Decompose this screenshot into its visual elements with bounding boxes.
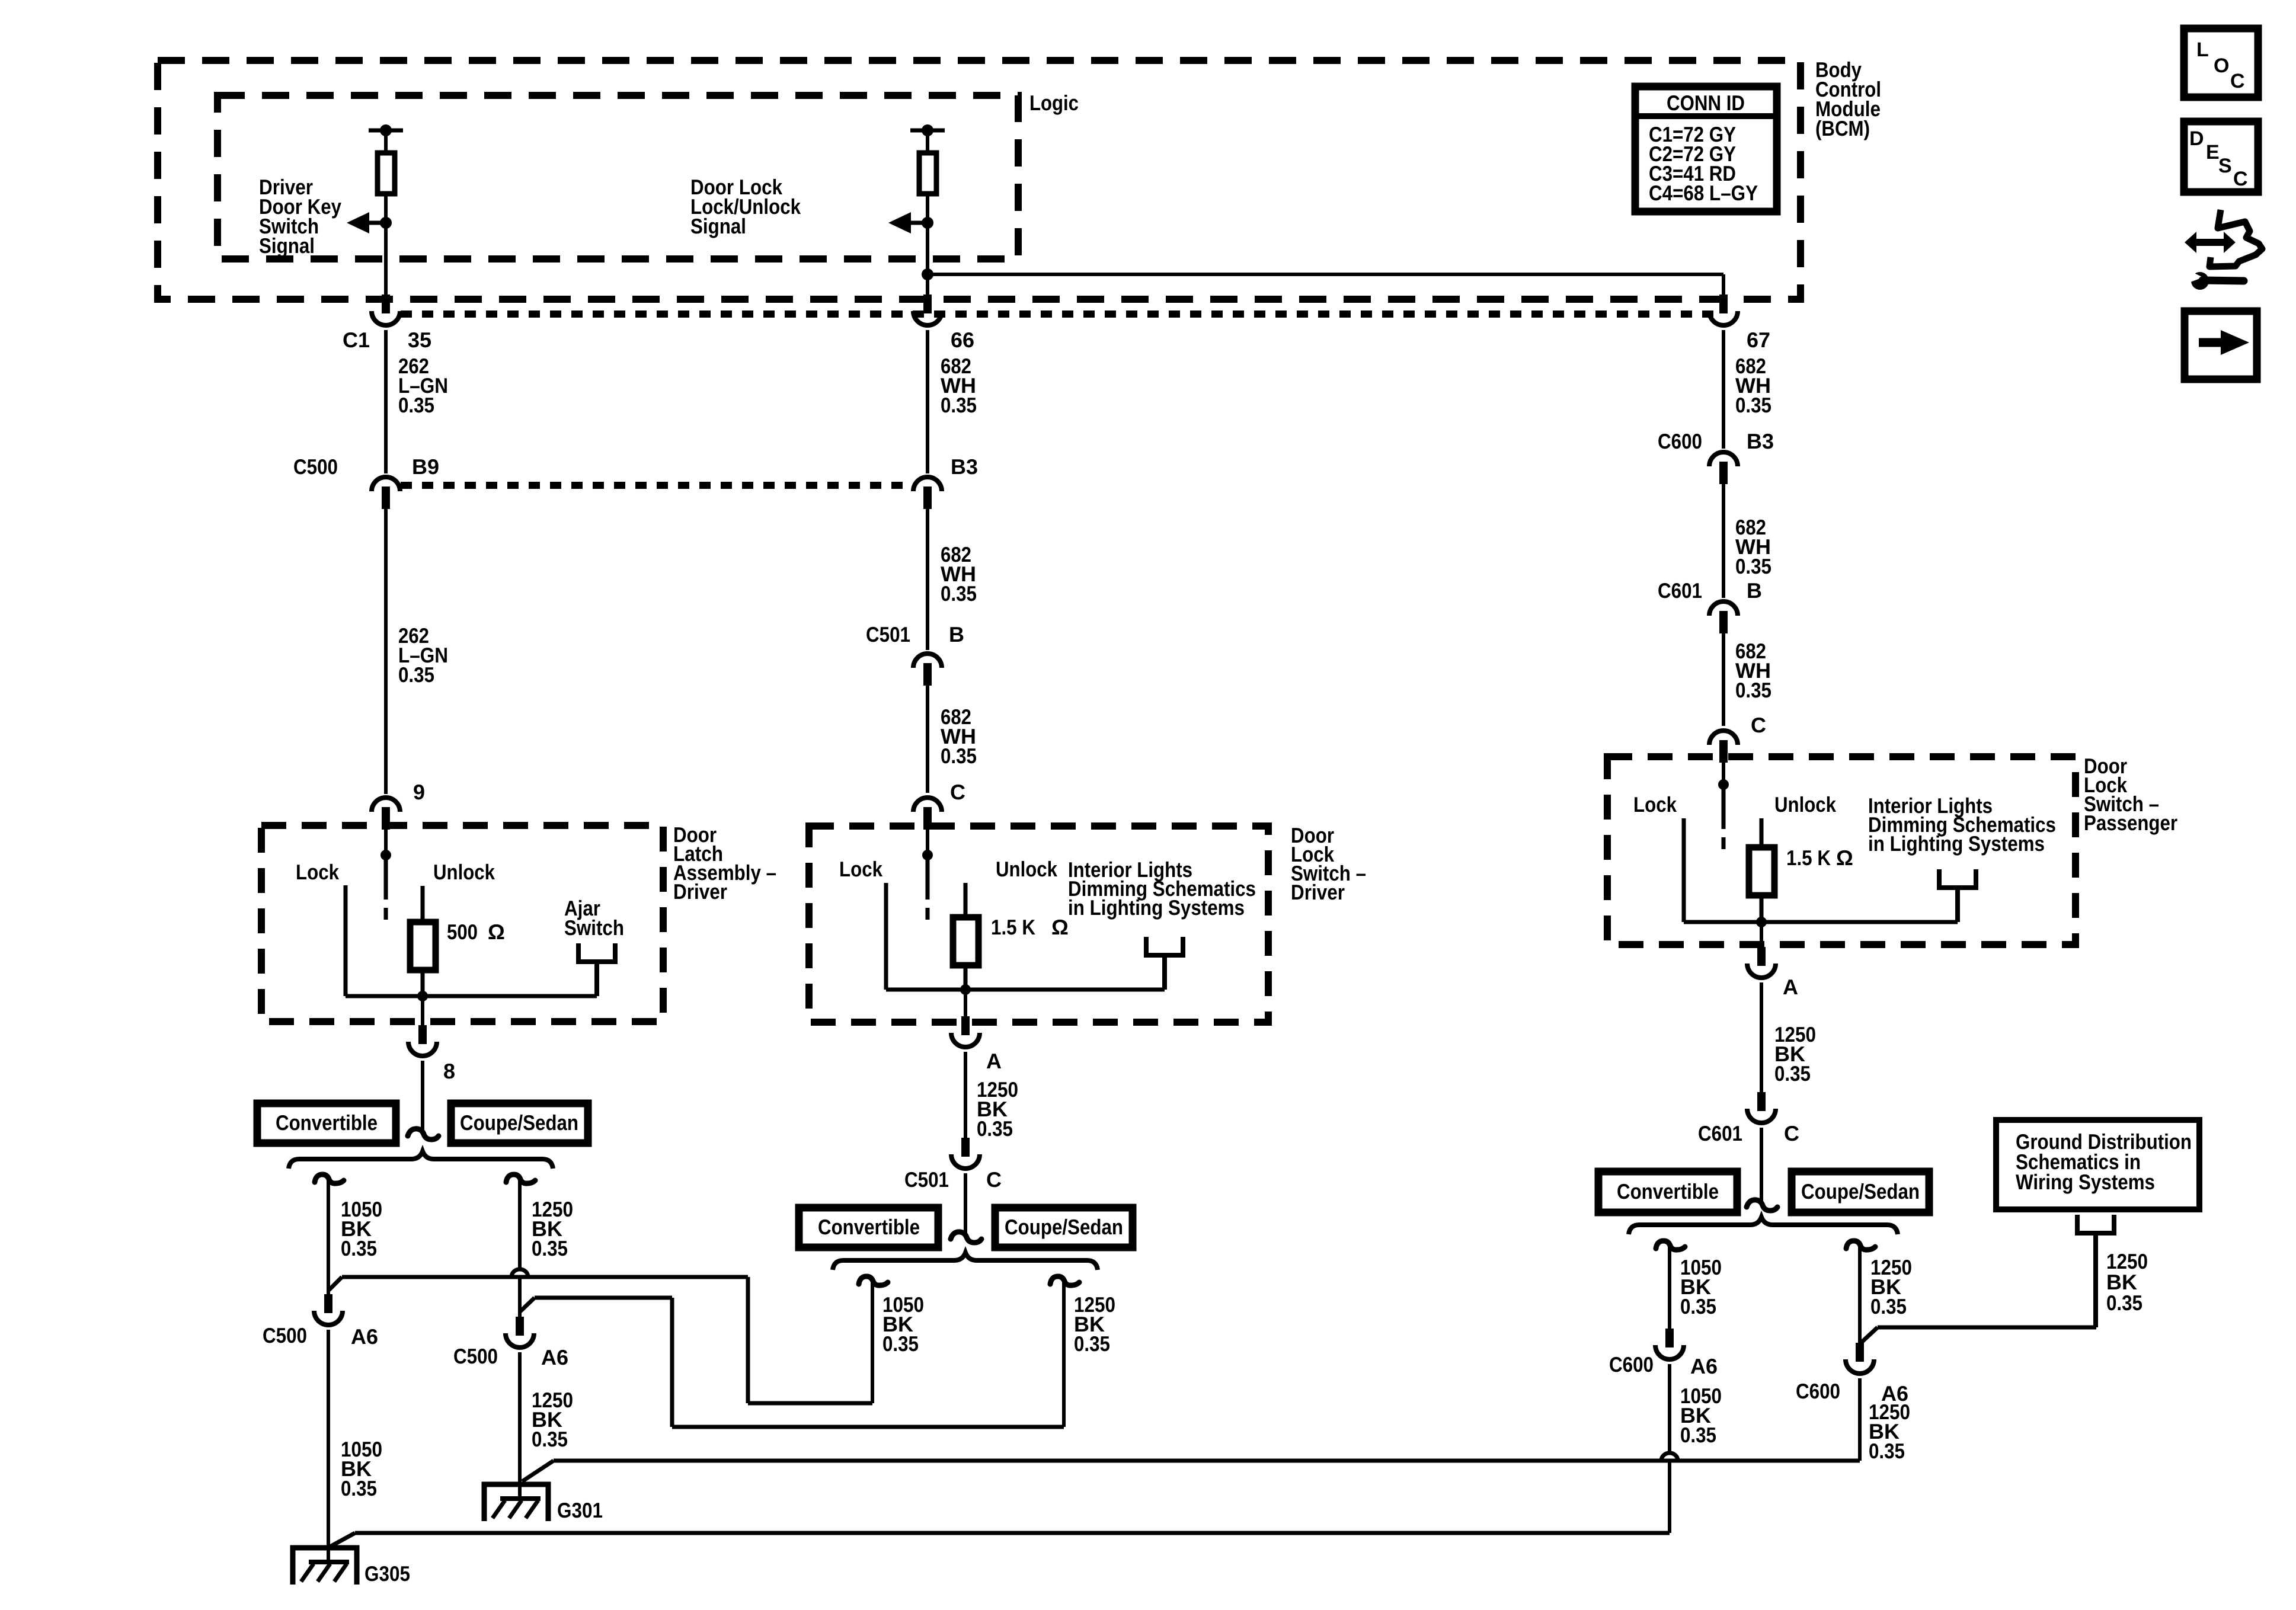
Door Latch Assembly - Driver dashed box bbox=[261, 825, 663, 1022]
passenger lock switch blade bbox=[1722, 785, 1726, 829]
Coupe/Sedan option box (passenger switch) bbox=[1792, 1172, 1929, 1212]
driver switch resistor 1.5K bbox=[953, 917, 978, 965]
Logic dashed box bbox=[218, 95, 1018, 259]
svg-text:Convertible: Convertible bbox=[818, 1215, 920, 1239]
svg-text:0.35: 0.35 bbox=[1074, 1331, 1110, 1356]
Body Control Module (BCM) dashed box bbox=[158, 60, 1801, 299]
svg-text:Logic: Logic bbox=[1029, 91, 1079, 115]
svg-text:C501: C501 bbox=[866, 622, 910, 646]
svg-text:S: S bbox=[2218, 155, 2232, 177]
latch switch blade bbox=[384, 855, 388, 900]
driver switch internal bus bbox=[886, 988, 1165, 992]
forward arrow icon box bbox=[2185, 311, 2257, 379]
svg-text:Convertible: Convertible bbox=[276, 1110, 378, 1135]
wire passenger switch output bbox=[1760, 922, 1763, 947]
svg-text:0.35: 0.35 bbox=[941, 581, 977, 606]
svg-text:C500: C500 bbox=[293, 454, 338, 479]
wire route convertible branch to ground wire A bbox=[748, 1401, 872, 1406]
door lock lock/unlock signal arrow bbox=[906, 221, 928, 225]
convertible branch hook bbox=[315, 1174, 344, 1183]
wire 262 L-GN lower bbox=[384, 505, 388, 794]
coupe/sedan branch hook bbox=[506, 1174, 535, 1183]
svg-text:Coupe/Sedan: Coupe/Sedan bbox=[460, 1110, 578, 1135]
wire to pin 66 bbox=[926, 223, 929, 295]
svg-text:0.35: 0.35 bbox=[941, 393, 977, 417]
svg-text:0.35: 0.35 bbox=[1870, 1294, 1907, 1318]
connector C1 pin 35 bbox=[382, 295, 390, 313]
svg-text:B3: B3 bbox=[951, 454, 978, 479]
svg-text:G301: G301 bbox=[557, 1498, 603, 1522]
svg-text:CONN ID: CONN ID bbox=[1667, 91, 1745, 115]
connector C501 pin B bbox=[913, 654, 942, 668]
convertible branch hook (passenger switch) bbox=[1656, 1241, 1685, 1250]
svg-text:C600: C600 bbox=[1609, 1352, 1654, 1377]
svg-text:C501: C501 bbox=[904, 1167, 949, 1192]
ground wire A bbox=[342, 1275, 748, 1279]
svg-text:Lock: Lock bbox=[296, 860, 340, 884]
connector pin 8 door latch bbox=[418, 1025, 427, 1044]
svg-text:A6: A6 bbox=[541, 1345, 568, 1369]
Coupe/Sedan option box (driver latch) bbox=[451, 1103, 588, 1143]
svg-text:0.35: 0.35 bbox=[1735, 554, 1771, 578]
svg-text:A6: A6 bbox=[351, 1324, 378, 1349]
LOC icon box bbox=[2184, 28, 2258, 97]
svg-text:Wiring Systems: Wiring Systems bbox=[2016, 1170, 2155, 1194]
wire 682 WH passenger lower bbox=[1722, 630, 1725, 726]
svg-text:A: A bbox=[1783, 975, 1798, 999]
svg-text:0.35: 0.35 bbox=[532, 1236, 568, 1260]
svg-text:0.35: 0.35 bbox=[1680, 1423, 1716, 1447]
svg-text:8: 8 bbox=[443, 1059, 455, 1083]
svg-text:0.35: 0.35 bbox=[941, 744, 977, 768]
interior lights dimming fork (driver) bbox=[1144, 937, 1149, 958]
svg-text:0.35: 0.35 bbox=[1774, 1061, 1811, 1086]
svg-text:Coupe/Sedan: Coupe/Sedan bbox=[1801, 1179, 1920, 1204]
wire 1050 BK convertible branch bbox=[327, 1179, 330, 1294]
svg-text:C: C bbox=[2230, 70, 2245, 92]
wire 682 WH lower bbox=[926, 682, 929, 793]
wire 1250 BK passenger switch bbox=[1760, 982, 1763, 1092]
svg-text:0.35: 0.35 bbox=[341, 1236, 377, 1260]
connector pin C door lock switch passenger bbox=[1709, 731, 1738, 745]
passenger switch Unlock wire bbox=[1760, 818, 1764, 847]
svg-text:C500: C500 bbox=[453, 1344, 498, 1368]
connector pin A door lock switch passenger bbox=[1757, 947, 1766, 966]
wire break symbol (driver switch split) bbox=[951, 1232, 981, 1243]
ground G301 bbox=[484, 1484, 548, 1521]
svg-text:E: E bbox=[2206, 141, 2220, 164]
svg-text:Unlock: Unlock bbox=[1774, 792, 1837, 817]
svg-text:0.35: 0.35 bbox=[1680, 1294, 1716, 1318]
svg-text:C601: C601 bbox=[1658, 578, 1702, 603]
wire 1250 BK to G301 bbox=[518, 1352, 522, 1500]
connector C500 pin B3 bbox=[913, 477, 942, 491]
svg-text:C: C bbox=[1751, 713, 1766, 737]
wire 1250 BK driver switch bbox=[964, 1052, 967, 1138]
svg-text:0.35: 0.35 bbox=[2106, 1291, 2142, 1315]
svg-text:0.35: 0.35 bbox=[977, 1116, 1013, 1141]
wire 682 WH mid bbox=[926, 505, 929, 650]
svg-text:0.35: 0.35 bbox=[532, 1427, 568, 1451]
svg-text:500: 500 bbox=[447, 920, 478, 944]
ground wire E bbox=[355, 1531, 1670, 1535]
connector C600 pin A6 (coupe/sedan) bbox=[1856, 1343, 1864, 1362]
svg-text:C: C bbox=[986, 1167, 1002, 1192]
coupe/sedan branch hook (driver switch) bbox=[1050, 1276, 1079, 1285]
wire 1050 BK to G305 bbox=[327, 1330, 330, 1564]
svg-text:0.35: 0.35 bbox=[341, 1476, 377, 1500]
DESC icon box bbox=[2184, 121, 2258, 192]
wire 1050 BK to ground wire E bbox=[1668, 1364, 1671, 1452]
connector C1 pin 67 bbox=[1719, 295, 1728, 313]
connector C501 pin C bbox=[961, 1138, 970, 1157]
wire to option split bbox=[421, 1061, 424, 1131]
wire 682 WH passenger mid bbox=[1722, 481, 1725, 598]
Ground Distribution Schematics box bbox=[1996, 1120, 2199, 1209]
driver switch Unlock wire bbox=[964, 883, 968, 917]
passenger lock switch common node bbox=[1718, 779, 1729, 790]
passenger switch Lock wire bbox=[1682, 818, 1686, 922]
svg-text:C: C bbox=[1784, 1121, 1799, 1145]
driver door key switch resistor R-key bbox=[369, 129, 403, 133]
ground wire B bbox=[535, 1296, 672, 1300]
driver door key switch signal arrow bbox=[364, 221, 386, 225]
latch Lock contact wire bbox=[344, 885, 348, 996]
connector C500 pin B9 bbox=[372, 477, 400, 491]
svg-text:Unlock: Unlock bbox=[996, 857, 1058, 881]
connector C500 pin A6 (convertible) bbox=[324, 1294, 332, 1313]
svg-text:B9: B9 bbox=[412, 454, 439, 479]
wire 682 WH pin 66 bbox=[926, 330, 929, 473]
svg-text:0.35: 0.35 bbox=[882, 1331, 919, 1356]
vehicle double-arrow icon bbox=[2185, 232, 2236, 253]
hop over ground wire D bbox=[1661, 1453, 1678, 1461]
passenger switch resistor 1.5K bbox=[1749, 847, 1774, 895]
svg-text:Passenger: Passenger bbox=[2084, 811, 2177, 835]
interior lights dimming fork (passenger) bbox=[1937, 869, 1942, 890]
driver switch Lock wire bbox=[884, 883, 888, 990]
Door Lock Switch - Passenger dashed box bbox=[1607, 757, 2076, 945]
convertible branch hook (driver switch) bbox=[859, 1276, 888, 1285]
connector C601 pin B bbox=[1709, 601, 1738, 616]
wire break symbol (passenger switch split) bbox=[1747, 1200, 1777, 1211]
svg-text:A: A bbox=[986, 1049, 1002, 1073]
option brace (driver switch) bbox=[833, 1253, 1098, 1270]
svg-text:C: C bbox=[2233, 168, 2248, 190]
svg-text:Driver: Driver bbox=[673, 879, 727, 904]
ground G305 bbox=[293, 1548, 357, 1585]
connector C500 dotted line bbox=[401, 482, 913, 489]
connector C601 pin C bbox=[1757, 1092, 1766, 1111]
connector pin C door lock switch driver bbox=[913, 798, 942, 812]
wire 1250 BK coupe/sedan (passenger switch) bbox=[1858, 1246, 1862, 1344]
wire 262 L-GN bbox=[384, 330, 388, 473]
svg-text:Signal: Signal bbox=[259, 233, 315, 258]
option brace (passenger switch) bbox=[1629, 1217, 1898, 1234]
svg-text:B3: B3 bbox=[1747, 429, 1774, 453]
svg-text:(BCM): (BCM) bbox=[1815, 116, 1870, 140]
svg-text:0.35: 0.35 bbox=[1735, 393, 1771, 417]
wire 1250 BK ground distribution bbox=[1878, 1326, 2096, 1330]
svg-text:Coupe/Sedan: Coupe/Sedan bbox=[1005, 1215, 1123, 1239]
wire 1050 BK convertible (driver switch) bbox=[871, 1281, 874, 1403]
ground wire D bbox=[554, 1459, 1860, 1463]
option brace (driver latch) bbox=[289, 1151, 553, 1169]
svg-text:66: 66 bbox=[951, 328, 974, 352]
passenger switch internal bus bbox=[1684, 920, 1958, 924]
svg-text:Ω: Ω bbox=[1051, 915, 1069, 939]
connector C600 pin B3 bbox=[1709, 452, 1738, 466]
svg-text:0.35: 0.35 bbox=[398, 662, 434, 687]
coupe/sedan branch hook (passenger switch) bbox=[1846, 1241, 1875, 1250]
driver lock switch blade bbox=[926, 855, 930, 900]
Door Lock Switch - Driver dashed box bbox=[809, 826, 1268, 1022]
latch internal bus wire bbox=[346, 994, 597, 998]
wire 1250 BK coupe/sedan (driver switch) bbox=[1062, 1281, 1066, 1427]
wire 1250 BK to ground wire D bbox=[1858, 1378, 1862, 1461]
svg-text:D: D bbox=[2189, 127, 2204, 150]
connector C1 dotted line bbox=[401, 311, 1719, 318]
svg-text:C1: C1 bbox=[343, 328, 370, 352]
CONN ID table bbox=[1635, 87, 1777, 212]
svg-text:1.5 K: 1.5 K bbox=[1786, 846, 1831, 870]
wrench icon bbox=[2191, 272, 2209, 290]
svg-text:A6: A6 bbox=[1690, 1354, 1718, 1378]
svg-text:C4=68 L–GY: C4=68 L–GY bbox=[1649, 181, 1758, 205]
wire route coupe/sedan branch to ground wire B bbox=[672, 1425, 1064, 1429]
svg-text:Unlock: Unlock bbox=[433, 860, 495, 884]
svg-text:C600: C600 bbox=[1796, 1379, 1840, 1403]
svg-text:35: 35 bbox=[408, 328, 431, 352]
wire latch output bbox=[421, 996, 424, 1025]
svg-text:C600: C600 bbox=[1658, 429, 1702, 453]
latch switch common node bbox=[380, 850, 391, 860]
wire BCM to C1 pin 35 bbox=[384, 223, 388, 295]
wire BCM internal to pin 67 bbox=[928, 273, 1723, 276]
wire to option split driver switch bbox=[964, 1173, 967, 1234]
svg-text:0.35: 0.35 bbox=[1735, 678, 1771, 702]
svg-text:B: B bbox=[1747, 578, 1762, 603]
svg-text:Lock: Lock bbox=[1633, 792, 1677, 817]
wire to option split passenger switch bbox=[1760, 1128, 1763, 1202]
svg-text:0.35: 0.35 bbox=[398, 393, 434, 417]
wire driver switch output bbox=[964, 990, 967, 1016]
svg-text:in Lighting Systems: in Lighting Systems bbox=[1068, 895, 1245, 920]
svg-text:O: O bbox=[2214, 55, 2229, 77]
node junction to pin 67 bbox=[922, 268, 933, 280]
latch Unlock contact wire bbox=[421, 886, 425, 922]
vehicle outline icon bbox=[2209, 210, 2262, 267]
svg-text:L: L bbox=[2196, 39, 2209, 61]
svg-text:Convertible: Convertible bbox=[1617, 1179, 1719, 1204]
connector C500 pin A6 (coupe/sedan) bbox=[516, 1317, 524, 1336]
svg-text:C601: C601 bbox=[1698, 1121, 1742, 1145]
svg-text:Lock: Lock bbox=[839, 857, 883, 881]
latch resistor 500 ohm bbox=[410, 922, 436, 970]
wire 1050 BK convertible (passenger switch) bbox=[1668, 1246, 1671, 1329]
svg-text:Switch: Switch bbox=[564, 916, 624, 940]
driver lock switch common node bbox=[922, 850, 933, 860]
svg-text:Ω: Ω bbox=[1836, 846, 1853, 870]
svg-text:in Lighting Systems: in Lighting Systems bbox=[1868, 831, 2045, 856]
Convertible option box (driver latch) bbox=[257, 1103, 396, 1143]
svg-text:B: B bbox=[949, 622, 964, 646]
svg-text:1.5 K: 1.5 K bbox=[991, 915, 1035, 939]
svg-text:C500: C500 bbox=[263, 1323, 307, 1347]
hop over ground wire A bbox=[511, 1269, 528, 1277]
wire 1250 BK coupe/sedan branch bbox=[518, 1179, 522, 1269]
ajar switch symbol bbox=[576, 943, 581, 964]
svg-text:C: C bbox=[950, 780, 965, 804]
ground distribution fork symbol bbox=[2075, 1215, 2080, 1235]
wire 682 WH pin 67 bbox=[1722, 330, 1725, 449]
Coupe/Sedan option box (driver switch) bbox=[995, 1208, 1133, 1247]
svg-text:G305: G305 bbox=[364, 1561, 410, 1586]
svg-text:Driver: Driver bbox=[1291, 880, 1345, 904]
svg-text:0.35: 0.35 bbox=[1869, 1439, 1905, 1463]
svg-text:Ω: Ω bbox=[488, 920, 505, 944]
connector C600 pin A6 (convertible) bbox=[1665, 1329, 1674, 1347]
Convertible option box (passenger switch) bbox=[1598, 1172, 1737, 1212]
svg-text:67: 67 bbox=[1747, 328, 1770, 352]
ground distribution junction diagonal bbox=[1861, 1327, 1878, 1343]
connector pin A door lock switch driver bbox=[961, 1016, 970, 1035]
connector pin 9 door latch bbox=[372, 798, 400, 812]
svg-text:Signal: Signal bbox=[690, 214, 746, 238]
svg-text:9: 9 bbox=[413, 780, 425, 804]
connector C1 pin 66 bbox=[923, 295, 932, 313]
Convertible option box (driver switch) bbox=[799, 1208, 938, 1247]
door lock lock/unlock resistor R-lock bbox=[910, 129, 945, 133]
wire break symbol bbox=[408, 1129, 439, 1140]
